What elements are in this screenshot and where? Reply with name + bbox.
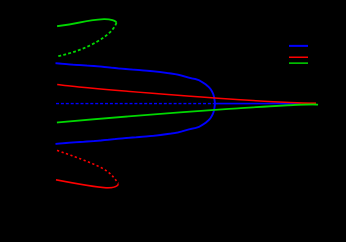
red lower-left fold: solid (stable) branch xyxy=(56,180,119,188)
blue dashed horizontal line (axis branch, left of vertex) xyxy=(56,103,214,105)
green solid line lower (converging branch) xyxy=(57,104,318,122)
green upper-left fold: solid (stable) branch xyxy=(57,19,116,26)
blue bubble curve (imaginary-part loop) xyxy=(56,63,216,144)
red lower-left fold: dotted (unstable) branch xyxy=(57,150,119,183)
red solid line upper (converging branch) xyxy=(57,85,316,104)
blue solid horizontal line (axis branch, right of vertex) xyxy=(215,103,301,105)
legend green line sample xyxy=(289,62,308,64)
green upper-left fold: dashed (unstable) branch xyxy=(57,23,117,57)
legend blue line sample xyxy=(289,45,308,47)
legend red line sample xyxy=(289,56,308,58)
